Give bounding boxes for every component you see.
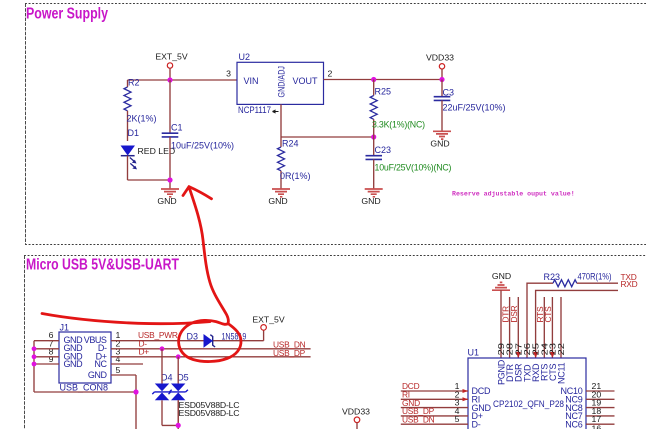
LED D1 xyxy=(121,128,175,180)
resistor R2 xyxy=(124,78,157,142)
wire DTR column xyxy=(509,297,511,358)
connector J1 box xyxy=(59,332,111,383)
junction node at C1 bottom xyxy=(167,177,172,182)
svg-text:R25: R25 xyxy=(375,87,392,97)
svg-text:R23: R23 xyxy=(544,272,561,282)
svg-text:U1: U1 xyxy=(468,348,480,358)
wire: pin2 D- row xyxy=(111,348,311,350)
red pen annotation: loop around D3 xyxy=(179,320,241,361)
svg-text:GND/ADJ: GND/ADJ xyxy=(277,66,287,98)
wire: D4 bottom to D5 column xyxy=(162,400,178,429)
ground below C23 xyxy=(361,189,382,206)
svg-text:2: 2 xyxy=(328,69,333,79)
svg-text:VDD33: VDD33 xyxy=(342,407,370,417)
power port EXT_5V (usb) xyxy=(252,315,285,331)
svg-text:22: 22 xyxy=(556,343,566,356)
svg-text:EXT_5V: EXT_5V xyxy=(252,315,285,325)
svg-text:USB_CON8: USB_CON8 xyxy=(60,383,109,393)
junction node on adj wire xyxy=(371,134,376,139)
wire: U2 pin1 down xyxy=(280,104,282,137)
svg-text:10uF/25V(10%): 10uF/25V(10%) xyxy=(171,141,234,151)
svg-text:CP2102_QFN_P28: CP2102_QFN_P28 xyxy=(493,399,564,409)
wire RXD column elbow xyxy=(536,290,618,358)
svg-text:Reserve adjustable ouput value: Reserve adjustable ouput value! xyxy=(452,191,575,198)
svg-text:J1: J1 xyxy=(60,323,70,333)
ground above U1 (inverted) xyxy=(492,271,511,358)
capacitor C23 xyxy=(366,137,452,189)
svg-text:3: 3 xyxy=(226,69,231,79)
svg-text:D-: D- xyxy=(472,419,481,429)
input arrows at DCD, RI xyxy=(463,389,469,393)
input arrows at DSR, RXD, CTS xyxy=(516,352,521,358)
U1 right pin numbers xyxy=(592,381,602,429)
sheet border: micro usb section xyxy=(24,256,646,429)
red pen annotation: swoosh tail xyxy=(42,314,210,324)
wire RTS column xyxy=(543,297,545,358)
svg-text:GND: GND xyxy=(157,196,176,206)
svg-text:NC11: NC11 xyxy=(556,362,566,384)
svg-text:VIN: VIN xyxy=(244,76,259,86)
U1 top pin numbers 29..22 (rotated) xyxy=(496,343,566,356)
svg-text:4: 4 xyxy=(116,354,121,364)
svg-text:Micro USB 5V&USB-UART: Micro USB 5V&USB-UART xyxy=(26,257,179,274)
svg-text:GND: GND xyxy=(492,271,511,281)
svg-text:D5: D5 xyxy=(177,373,189,383)
svg-text:470R(1%): 470R(1%) xyxy=(578,272,612,282)
wire: pin1 to R25/C23 column xyxy=(281,136,374,138)
svg-text:NCP1117: NCP1117 xyxy=(238,105,271,115)
wire: pin3 D+ row xyxy=(111,356,311,358)
svg-text:NC6: NC6 xyxy=(565,419,582,429)
U1 right pin wires xyxy=(586,391,615,424)
junction node D+ to D5 xyxy=(176,354,181,359)
svg-text:D4: D4 xyxy=(161,373,173,383)
svg-text:9: 9 xyxy=(49,354,54,364)
wire DSR column xyxy=(517,297,519,358)
resistor R24 xyxy=(278,137,311,189)
junction node D- to D4 xyxy=(160,346,165,351)
resistor R25 xyxy=(370,80,425,138)
svg-text:RXD: RXD xyxy=(621,279,638,289)
svg-text:D3: D3 xyxy=(187,332,199,342)
svg-text:C23: C23 xyxy=(375,145,392,155)
power port EXT_5V xyxy=(155,52,188,81)
svg-text:ESD05V88D-LC: ESD05V88D-LC xyxy=(179,408,240,418)
junction node at VDD33 column xyxy=(439,77,444,82)
svg-text:2K(1%): 2K(1%) xyxy=(127,114,157,124)
J1 pin names left column xyxy=(64,335,84,369)
IC U1 box xyxy=(468,358,586,429)
ground below C1 xyxy=(157,189,179,206)
J1 right pin numbers 1..5 xyxy=(116,330,121,375)
regulator U2 (NCP1117) box xyxy=(237,62,324,104)
U1 right pin names xyxy=(560,386,582,429)
junction node at R25 top xyxy=(371,77,376,82)
J1 pin names right column xyxy=(84,335,108,380)
gnd bus left vertical xyxy=(34,341,136,429)
U1 left pin numbers xyxy=(455,381,460,424)
U2 pin 1 marker (rotated digit 1, looks like small left arrow) xyxy=(273,110,279,113)
svg-text:USB_DN: USB_DN xyxy=(402,414,435,424)
wire: pin4 NC stub xyxy=(111,363,143,365)
svg-text:CTS: CTS xyxy=(543,306,553,323)
svg-text:GND: GND xyxy=(64,359,84,369)
J1 left pin wires xyxy=(34,341,59,364)
svg-text:R2: R2 xyxy=(128,78,140,88)
red pen annotation: arrow stem xyxy=(189,187,228,324)
svg-text:U2: U2 xyxy=(239,52,251,62)
svg-text:1N5819: 1N5819 xyxy=(222,332,247,342)
wire: VOUT to VDD33 xyxy=(324,79,443,81)
wire: pin1 VBUS row xyxy=(111,330,264,341)
svg-text:R24: R24 xyxy=(282,139,299,149)
svg-text:Power Supply: Power Supply xyxy=(26,6,108,23)
svg-text:16: 16 xyxy=(592,424,602,429)
svg-text:C1: C1 xyxy=(171,123,183,133)
junction node at D4/D5 gnd xyxy=(176,423,181,428)
wire: D1 bottom to GND column xyxy=(128,179,171,181)
svg-text:GND: GND xyxy=(88,370,108,380)
svg-text:VDD33: VDD33 xyxy=(426,52,454,62)
wire CTS column xyxy=(551,297,553,358)
svg-text:3.3K(1%)(NC): 3.3K(1%)(NC) xyxy=(372,120,425,130)
svg-text:GND: GND xyxy=(268,196,287,206)
svg-text:5: 5 xyxy=(455,414,460,424)
resistor R23 xyxy=(544,272,612,287)
svg-text:GND: GND xyxy=(430,139,449,149)
capacitor C3 xyxy=(434,80,506,131)
svg-text:GND: GND xyxy=(361,196,380,206)
svg-text:DSR: DSR xyxy=(509,305,519,322)
svg-text:0R(1%): 0R(1%) xyxy=(280,171,311,181)
wire TXD column elbow xyxy=(527,283,553,358)
svg-text:EXT_5V: EXT_5V xyxy=(155,52,188,62)
wire: EXT_5V to VIN xyxy=(128,79,238,81)
power port VDD33 xyxy=(426,52,454,79)
svg-text:D1: D1 xyxy=(128,128,140,138)
J1 pin5 wire xyxy=(111,374,136,376)
power port VDD33 (usb) xyxy=(342,407,370,429)
svg-text:5: 5 xyxy=(116,365,121,375)
U1 top pin names (rotated) xyxy=(496,359,566,385)
TVS diode D5 xyxy=(169,357,189,426)
svg-text:10uF/25V(10%)(NC): 10uF/25V(10%)(NC) xyxy=(375,163,452,173)
ground below R24 xyxy=(268,189,290,206)
wire: R23 to TXD port xyxy=(577,282,618,284)
TVS diode D4 xyxy=(152,349,172,426)
wire NC11 column xyxy=(560,297,562,358)
red pen annotation: arrowhead xyxy=(183,187,212,199)
svg-text:VOUT: VOUT xyxy=(292,76,318,86)
U1 left pin wires 1..5 xyxy=(401,391,468,424)
svg-text:22uF/25V(10%): 22uF/25V(10%) xyxy=(443,103,506,113)
svg-text:NC: NC xyxy=(94,359,107,369)
ground below C3 xyxy=(430,131,451,148)
sheet border: power supply section xyxy=(25,4,646,245)
junction nodes on gnd bus xyxy=(32,346,37,351)
U1 left pin names xyxy=(472,386,492,429)
diode D3 1N5819 xyxy=(187,332,247,348)
svg-text:D+: D+ xyxy=(139,347,150,357)
capacitor C1 xyxy=(162,80,234,189)
svg-text:USB_DP: USB_DP xyxy=(273,348,306,358)
junction node at EXT_5V column xyxy=(167,77,172,82)
J1 left pin numbers 6,7,8,9 xyxy=(49,330,54,364)
